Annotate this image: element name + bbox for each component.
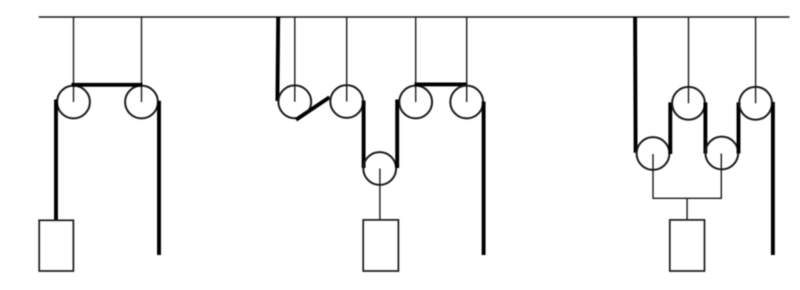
rope segment: ceiling anchor to pulley P3 [275, 17, 280, 101]
rope segment: free end right of P7 [482, 102, 486, 256]
rope segment: P5 up to pulley P6 [395, 100, 399, 169]
rope segment: P8 up to pulley P9 [668, 102, 672, 154]
hanger rod pulley P2 [141, 17, 143, 102]
pulley P2 [125, 86, 158, 119]
pulley P6 [399, 86, 432, 119]
hanger rod pulley P9 [688, 17, 690, 103]
rope segment: diagonal P3 to P4 [296, 97, 330, 119]
hanger rod pulley P4 [346, 17, 348, 102]
rope segment: P10 up to pulley P11 [737, 102, 741, 153]
hanger rod pulley P1 [73, 17, 75, 102]
weight W3 [670, 220, 705, 271]
rope segment: P4 down to movable pulley P5 [362, 101, 366, 169]
yoke bar linking P8 and P10 [653, 154, 721, 199]
hanger rod pulley P3 [294, 17, 296, 102]
hanger rod pulley P7 [466, 17, 468, 102]
movable pulley P8 [637, 137, 670, 170]
pulley P3 [278, 85, 311, 118]
hanger rod pulley P6 [415, 17, 417, 102]
rope segment: free end right of P11 [771, 102, 775, 255]
rope segment: P9 down to movable pulley P10 [703, 102, 707, 153]
hanger rod pulley P11 [755, 17, 757, 103]
rope segment: free end right of P2 [157, 101, 161, 255]
weight W1 [39, 220, 73, 271]
ceiling [39, 16, 790, 18]
pulley P1 [57, 86, 90, 119]
rope segment: top span P1 to P2 [72, 83, 143, 87]
movable pulley P10 [705, 137, 738, 170]
pulley P7 [450, 86, 483, 119]
pulley P9 [672, 87, 705, 120]
weight W2 [363, 220, 398, 271]
rope segment: ceiling anchor to movable pulley P8 [633, 17, 637, 153]
movable pulley P5 [363, 152, 396, 185]
pulley P11 [739, 87, 772, 120]
rope segment: top span P6 to P7 [415, 82, 468, 86]
pulley P4 [330, 85, 363, 118]
rope segment: left fall to weight W1 [54, 100, 58, 221]
yoke stem to weight W3 [686, 198, 688, 220]
cord P5 to weight W2 [379, 169, 381, 220]
